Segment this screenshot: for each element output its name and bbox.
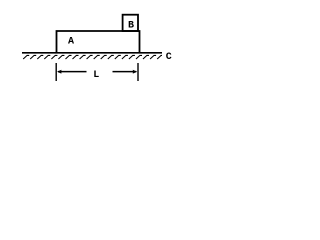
block A (rectangle on ground) <box>57 31 140 53</box>
dimension line right segment <box>113 71 137 73</box>
right arrowhead <box>133 70 137 74</box>
dimension right tick <box>137 63 139 81</box>
ground hatching <box>23 55 162 59</box>
svg-text:C: C <box>166 52 172 63</box>
background <box>0 0 186 90</box>
block B (small square on top of A) <box>123 15 138 31</box>
dimension left tick <box>55 63 57 81</box>
svg-text:A: A <box>68 37 74 48</box>
svg-text:L: L <box>93 70 99 81</box>
left arrowhead <box>57 70 61 74</box>
ground surface C (horizontal line) <box>22 52 162 54</box>
svg-text:B: B <box>128 20 134 31</box>
dimension line left segment <box>58 71 87 73</box>
